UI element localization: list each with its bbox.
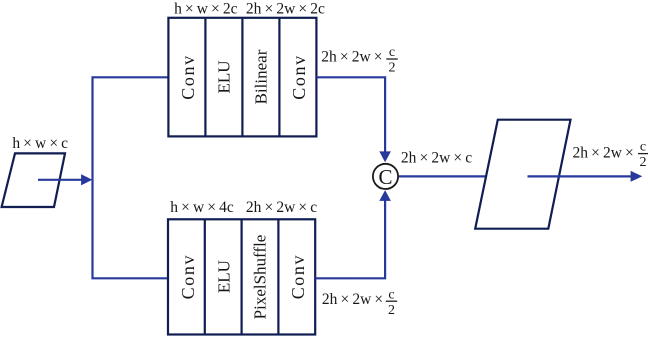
wire input arrow xyxy=(38,174,92,185)
svg-text:2h × 2w × c: 2h × 2w × c xyxy=(401,150,472,167)
label 2h×2w×c/2 (top) xyxy=(321,45,397,76)
wire bottom box to concat xyxy=(315,190,391,278)
node input parallelogram xyxy=(2,153,65,207)
svg-text:2h × 2w ×: 2h × 2w × xyxy=(321,49,382,66)
svg-text:Bilinear: Bilinear xyxy=(252,49,271,104)
svg-text:ELU: ELU xyxy=(215,60,234,93)
svg-text:c: c xyxy=(640,140,646,155)
svg-text:2h × 2w ×: 2h × 2w × xyxy=(573,144,634,161)
svg-text:Conv: Conv xyxy=(178,54,198,99)
svg-text:c: c xyxy=(389,45,395,60)
wire output arrow xyxy=(527,171,642,182)
block bottom box xyxy=(168,219,315,334)
svg-text:Conv: Conv xyxy=(288,254,308,299)
svg-text:2: 2 xyxy=(639,155,646,170)
wire concat to output parallelogram xyxy=(399,175,486,177)
svg-text:h × w × 2c: h × w × 2c xyxy=(174,0,238,17)
svg-text:2: 2 xyxy=(388,303,395,318)
svg-text:Conv: Conv xyxy=(178,254,198,299)
svg-text:2h × 2w ×: 2h × 2w × xyxy=(322,291,383,308)
svg-text:2h × 2w × 2c: 2h × 2w × 2c xyxy=(246,0,325,17)
svg-text:h × w × 4c: h × w × 4c xyxy=(170,199,234,216)
concat node C xyxy=(373,164,398,189)
block top box xyxy=(168,18,316,137)
svg-text:2: 2 xyxy=(389,61,396,76)
node output parallelogram xyxy=(475,120,570,229)
svg-text:C: C xyxy=(378,165,392,189)
svg-text:c: c xyxy=(388,287,394,302)
svg-text:2h × 2w × c: 2h × 2w × c xyxy=(246,199,317,216)
label 2h×2w×c/2 (output) xyxy=(572,140,648,170)
svg-text:PixelShuffle: PixelShuffle xyxy=(250,235,269,320)
svg-text:h × w × c: h × w × c xyxy=(12,135,68,152)
svg-text:ELU: ELU xyxy=(214,260,233,293)
wire top box to concat xyxy=(316,77,391,162)
wire trunk split xyxy=(92,77,169,278)
label 2h×2w×c/2 (bottom) xyxy=(322,287,397,318)
label h×w×c xyxy=(12,135,68,152)
svg-text:Conv: Conv xyxy=(289,54,309,99)
